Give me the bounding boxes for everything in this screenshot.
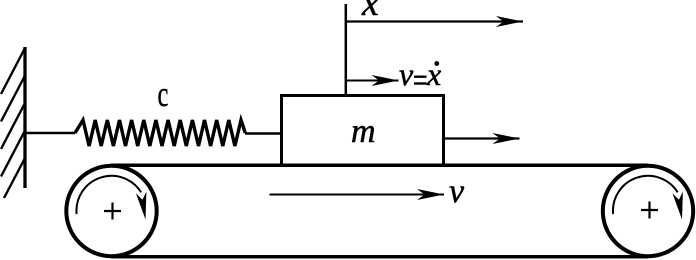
svg-text:x: x — [361, 0, 379, 24]
svg-text:v: v — [399, 56, 414, 92]
svg-text:x: x — [426, 56, 441, 92]
svg-text:c: c — [158, 74, 169, 114]
svg-text:m: m — [351, 113, 376, 150]
svg-text:v: v — [449, 173, 465, 210]
